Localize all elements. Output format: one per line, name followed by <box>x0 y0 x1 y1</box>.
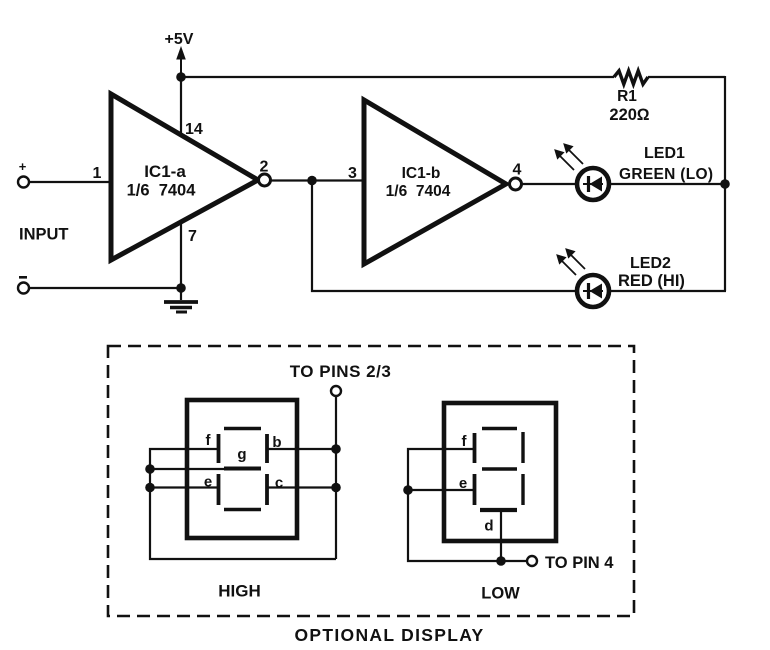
svg-text:TO PIN 4: TO PIN 4 <box>545 554 614 572</box>
segment e (DS1) <box>217 474 221 505</box>
terminal: - input <box>18 276 29 294</box>
wire: LED1 to right rail <box>609 183 725 185</box>
+5V arrow <box>176 46 186 77</box>
terminal: + input <box>18 159 29 188</box>
svg-text:HIGH: HIGH <box>218 582 261 601</box>
wire: junction down to LED2 line <box>312 181 577 292</box>
svg-text:4: 4 <box>513 162 522 179</box>
LED1 <box>577 168 609 200</box>
wire: e junction to segment e (DS2) <box>408 489 475 491</box>
segment b (DS2) <box>521 432 524 463</box>
LED2 emission arrows <box>558 250 586 276</box>
node: right rail junction <box>720 179 730 189</box>
segment d (DS2) <box>480 508 517 512</box>
svg-text:LED2: LED2 <box>630 255 671 272</box>
wire: - input to ground <box>29 287 181 289</box>
wire: pin 2 to pin 3 <box>271 179 365 181</box>
svg-text:+5V: +5V <box>165 31 194 48</box>
svg-text:IC1-b: IC1-b <box>402 165 441 182</box>
svg-text:GREEN (LO): GREEN (LO) <box>619 166 713 183</box>
segment a (DS2) <box>482 427 517 430</box>
display DS2 outline (LOW) <box>444 403 556 541</box>
wire: segment f to left rail (DS2) <box>408 449 501 561</box>
wire: LED2 to right rail <box>609 290 726 292</box>
display DS1 outline (HIGH) <box>187 400 297 538</box>
segment c (DS2) <box>521 474 524 505</box>
node: output junction <box>307 176 317 186</box>
node: +5V junction <box>176 72 186 82</box>
segment g (DS2) <box>482 467 517 470</box>
pin 2 bubble of IC1-a <box>259 174 271 186</box>
terminal: TO PIN 4 <box>527 556 537 566</box>
node: c junction (DS1) <box>331 483 341 493</box>
wire: right rail of DS1 <box>335 396 337 559</box>
wire: pin 4 to LED1 <box>522 183 578 185</box>
svg-text:INPUT: INPUT <box>19 226 69 244</box>
segment g (DS1) <box>224 467 261 471</box>
svg-text:1: 1 <box>93 165 102 182</box>
op-amp U2 inverter IC1-b <box>364 100 506 264</box>
svg-text:220Ω: 220Ω <box>609 106 650 124</box>
LED2 <box>577 275 609 307</box>
svg-text:LOW: LOW <box>481 585 520 603</box>
wire: segment f to left rail (DS1) <box>150 449 336 559</box>
LED1 emission arrows <box>556 145 584 171</box>
segment f (DS2) <box>473 433 477 463</box>
node: e junction (DS2) <box>403 485 413 495</box>
terminal: TO PINS 2/3 <box>331 386 341 396</box>
svg-text:14: 14 <box>185 121 203 138</box>
wire: right vertical rail <box>724 76 726 291</box>
svg-text:3: 3 <box>348 165 357 182</box>
svg-text:TO PINS 2/3: TO PINS 2/3 <box>290 362 392 381</box>
svg-text:2: 2 <box>260 159 269 176</box>
svg-text:LED1: LED1 <box>644 145 685 162</box>
wire: top rail from resistor to right corner <box>648 76 725 78</box>
svg-text:d: d <box>484 518 493 535</box>
svg-text:OPTIONAL DISPLAY: OPTIONAL DISPLAY <box>295 625 485 645</box>
svg-text:g: g <box>237 446 246 463</box>
segment d (DS1) <box>224 508 261 511</box>
optional display dashed box <box>108 346 634 616</box>
wire: segment b to right rail (DS1) <box>267 448 336 450</box>
node: d junction (DS2) <box>496 556 506 566</box>
wire: g junction to segment g (DS1) <box>150 468 226 470</box>
segment c (DS1) <box>265 474 269 505</box>
svg-text:IC1-a: IC1-a <box>144 162 186 181</box>
node: b junction (DS1) <box>331 444 341 454</box>
svg-text:RED (HI): RED (HI) <box>618 272 685 290</box>
wire: pin 14 from +5V <box>180 77 182 137</box>
wire: segment c to right rail (DS1) <box>267 486 336 488</box>
segment f (DS1) <box>217 434 221 463</box>
node: ground junction <box>176 283 186 293</box>
ground <box>164 288 198 312</box>
wire: d junction to TO PIN 4 terminal <box>501 560 527 562</box>
svg-text:1/6 7404: 1/6 7404 <box>127 182 197 200</box>
resistor R1 <box>614 71 648 84</box>
svg-text:+: + <box>19 159 27 174</box>
segment e (DS2) <box>473 474 477 505</box>
svg-text:R1: R1 <box>617 88 637 105</box>
pin 4 bubble of IC1-b <box>510 178 522 190</box>
wire: segment d down to bottom rail (DS2) <box>500 510 502 561</box>
segment a (DS1) <box>224 427 261 430</box>
wire: top rail from +5V junction to resistor <box>181 76 614 78</box>
node: g junction (DS1) <box>145 464 155 474</box>
node: e junction (DS1) <box>145 483 155 493</box>
wire: pin 7 to ground <box>180 221 182 288</box>
svg-text:1/6 7404: 1/6 7404 <box>386 183 451 200</box>
svg-text:c: c <box>275 475 283 492</box>
op-amp U1 inverter IC1-a <box>111 94 258 260</box>
segment b (DS1) <box>265 434 269 463</box>
svg-text:7: 7 <box>188 228 197 245</box>
wire: + input to pin 1 <box>29 181 111 183</box>
wire: e junction to segment e (DS1) <box>150 486 219 488</box>
